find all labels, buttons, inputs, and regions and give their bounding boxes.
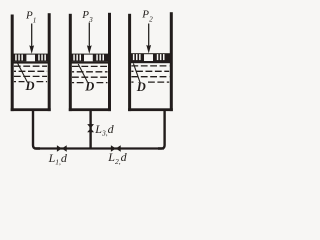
liquid dashes cylinder 1 xyxy=(14,66,47,81)
cylinder 3 right wall xyxy=(170,12,173,111)
cylinder 2 left wall xyxy=(69,14,72,111)
cylinder 1 right wall xyxy=(48,13,51,111)
leader line to D3 xyxy=(133,63,140,82)
pipe from cylinder 1 (down-elbow) xyxy=(33,111,40,149)
valve on pipe L2 xyxy=(111,145,121,151)
svg-text:P: P xyxy=(25,10,33,22)
svg-text:2: 2 xyxy=(149,16,153,24)
svg-text:P: P xyxy=(81,9,89,21)
cylinder 1 left wall xyxy=(11,15,14,112)
pressure arrow P1 xyxy=(29,24,34,54)
svg-text:P: P xyxy=(141,9,149,21)
pipe from cylinder 3 (down-elbow) xyxy=(158,111,165,149)
svg-text:D: D xyxy=(136,80,146,94)
valve on pipe L3 xyxy=(87,124,94,132)
pressure arrow P2 xyxy=(146,24,151,54)
cylinder 2 bottom xyxy=(69,108,111,111)
valve on pipe L1 xyxy=(57,145,67,151)
cylinder 1 bottom xyxy=(11,108,51,111)
cylinder 3 left wall xyxy=(128,14,131,111)
cylinder 3 bottom xyxy=(128,108,173,111)
liquid dashes cylinder 3 xyxy=(131,66,169,82)
horizontal pipe xyxy=(35,147,165,149)
svg-text:3: 3 xyxy=(88,16,93,24)
cylinder 2 right wall xyxy=(108,13,111,111)
piston 2 hatched band xyxy=(69,54,110,62)
piston 3 bottom plate xyxy=(129,61,172,63)
piston 3 hatched band xyxy=(129,53,172,61)
leader line to D1 xyxy=(18,63,28,82)
piston 1 hatched band xyxy=(11,54,49,62)
svg-text:D: D xyxy=(25,79,35,93)
liquid dashes cylinder 2 xyxy=(72,66,108,82)
svg-text:D: D xyxy=(84,80,94,94)
pipe from cylinder 2 (vertical, middle) xyxy=(89,111,91,149)
leader line to D2 xyxy=(78,64,87,82)
piston 1 bottom plate xyxy=(11,61,49,63)
piston 2 bottom plate xyxy=(69,61,110,63)
pressure arrow P3 xyxy=(87,23,92,54)
svg-text:1: 1 xyxy=(33,17,37,25)
